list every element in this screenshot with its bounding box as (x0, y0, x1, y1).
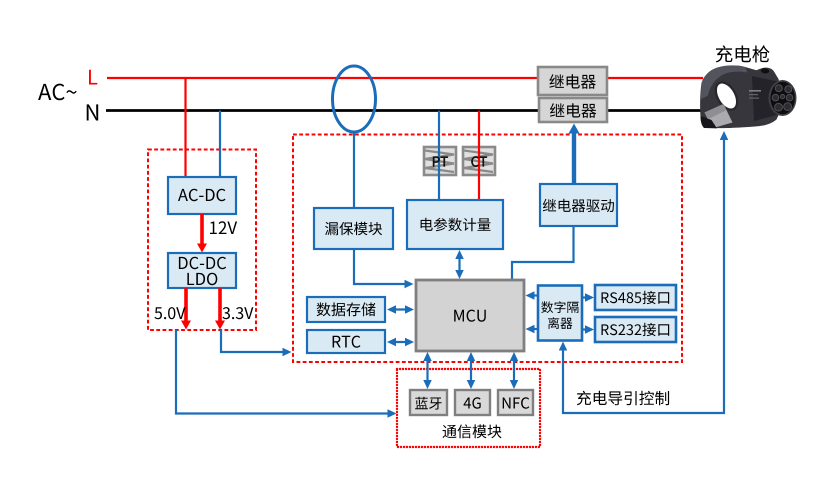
block 4G (455, 390, 490, 415)
main control dashed box (293, 135, 682, 363)
block 继电器驱动 (540, 184, 617, 226)
label AC~ (38, 84, 77, 101)
arrow isolator to RS232 (582, 328, 588, 330)
current transformer ring (333, 66, 376, 132)
block MCU (416, 280, 524, 351)
arrow metering to MCU (both ways) (458, 255, 460, 274)
block 蓝牙 (410, 390, 447, 415)
arrow MCU-bluetooth (426, 357, 428, 384)
block RTC (307, 330, 385, 353)
wire N tap to AC-DC (219, 111, 221, 178)
block 电参数计量 (407, 200, 503, 249)
wire leakage module to MCU (354, 249, 407, 284)
block AC-DC (168, 177, 236, 214)
transformer CT body (463, 147, 495, 175)
arrow isolator to MCU lower (531, 328, 538, 330)
block 数字隔离器 (538, 286, 582, 341)
wire ring to leakage module (353, 132, 355, 208)
label L (89, 70, 97, 85)
block RS232接口 (595, 317, 676, 342)
wire 3.3V to main board (221, 330, 285, 352)
label 充电枪 (716, 45, 770, 62)
label 通信模块 (443, 424, 502, 438)
block 漏保模块 (314, 208, 393, 249)
arrow 3.3V output (218, 288, 222, 321)
label 3.3V (223, 307, 254, 319)
wire through PT (438, 111, 440, 202)
block DC-DC LDO (168, 253, 236, 288)
block NFC (498, 390, 533, 415)
label PT (433, 157, 448, 167)
communication module dashed box (397, 369, 540, 447)
label N (87, 104, 99, 120)
transformer PT body (424, 147, 456, 175)
label 5.0V (154, 307, 185, 319)
relay block upper 继电器 (538, 67, 607, 95)
arrow MCU-RTC (392, 341, 409, 343)
wire L (AC live line) (107, 77, 703, 79)
relay block lower 继电器 (539, 98, 607, 122)
label 充电导引控制 (577, 391, 669, 406)
arrow 5.0V output (184, 288, 188, 321)
wire L tap to AC-DC (184, 78, 186, 177)
wire through CT (478, 111, 480, 202)
charging gun connector (700, 65, 796, 128)
block 数据存储 (307, 297, 385, 322)
label 12V (210, 221, 237, 234)
wire 5V to communication module (176, 330, 390, 414)
wire charge pilot control (563, 134, 724, 413)
arrow MCU-storage (392, 308, 409, 310)
label CT (471, 156, 487, 166)
block RS485接口 (595, 285, 676, 310)
wire N (AC neutral line) (106, 109, 704, 112)
wire relay drive to MCU (512, 226, 574, 279)
arrow 12V AC-DC to DC-DC (200, 214, 204, 244)
arrow MCU-NFC (513, 357, 515, 384)
power supply dashed box (148, 150, 256, 331)
arrow isolator to MCU upper (531, 294, 538, 296)
arrow isolator to RS485 (582, 296, 588, 298)
arrow MCU-4G (470, 357, 472, 384)
arrow relay drive to relay (572, 132, 576, 184)
